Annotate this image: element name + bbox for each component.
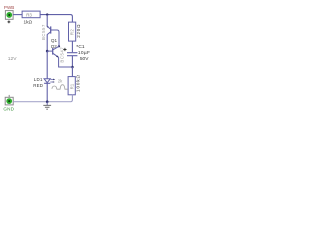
wire Q2 emitter to node — [59, 57, 73, 67]
svg-text:R3: R3 — [26, 13, 32, 18]
svg-text:12V: 12V — [8, 56, 17, 62]
transistor Q2 emitter diagonal — [53, 53, 59, 57]
capacitor C1 top plate — [67, 52, 77, 54]
svg-text:R1: R1 — [69, 83, 74, 89]
transistor Q2 collector diagonal — [53, 46, 59, 50]
capacitor C1 plus sign — [63, 48, 66, 51]
earth ground bars — [43, 104, 51, 106]
ground connector GND box — [5, 97, 13, 105]
ground connector green pad — [6, 98, 12, 104]
svg-text:Q1: Q1 — [51, 38, 58, 43]
svg-text:BC547: BC547 — [59, 47, 64, 63]
transistor Q2 base wire — [47, 50, 53, 52]
wire P1 to R3 — [13, 14, 22, 16]
resistor R1 box — [68, 77, 75, 95]
svg-text:100kΩ: 100kΩ — [75, 74, 80, 92]
connector P1 box — [5, 11, 13, 20]
svg-text:C1: C1 — [78, 44, 84, 50]
transistor Q2 base bar — [52, 48, 54, 54]
transistor Q1 emitter diagonal — [47, 26, 51, 29]
node junction top — [46, 13, 48, 15]
LED LD1 triangle — [44, 79, 50, 83]
svg-text:LD1: LD1 — [34, 77, 43, 82]
resistor R2 box — [69, 22, 76, 41]
transistor Q1 base wire to Q2 collector — [51, 30, 59, 46]
svg-text:BC557: BC557 — [41, 24, 46, 40]
resistor R3 box — [22, 11, 40, 18]
wire LED cathode down — [46, 83, 48, 101]
connector P1 plus mark — [8, 21, 11, 24]
wire R1 bottom corner to rail — [70, 95, 72, 102]
svg-text:GND: GND — [3, 106, 14, 111]
svg-text:R2: R2 — [70, 29, 75, 35]
transistor Q2 emitter arrowhead — [56, 55, 58, 57]
wire C1 to node — [71, 56, 73, 67]
svg-text:RED: RED — [33, 83, 43, 88]
node junction LED/Q2 base — [46, 50, 49, 53]
background — [0, 0, 94, 120]
svg-text:1kΩ: 1kΩ — [24, 20, 33, 25]
ground connector pin tick — [8, 95, 10, 97]
wire rail R3 to R2 corner — [40, 15, 72, 23]
svg-text:PWB: PWB — [4, 5, 14, 10]
wire bottom rail — [13, 101, 70, 103]
capacitor C1 bottom plate — [67, 55, 77, 57]
wire to LED anode — [46, 51, 48, 79]
svg-text:50V: 50V — [80, 56, 89, 62]
transistor Q1 base bar — [50, 26, 52, 33]
node Q1 base / Q2 collector — [58, 45, 60, 47]
svg-text:10µF: 10µF — [78, 50, 90, 56]
wire R2 to C1 — [71, 41, 73, 52]
transistor Q1 emitter wire — [46, 15, 48, 27]
LED LD1 cathode bar — [44, 82, 50, 84]
svg-text:220Ω: 220Ω — [76, 24, 81, 38]
capacitor C1 polarity dot — [77, 45, 78, 46]
connector P1 green pad — [6, 12, 12, 18]
transistor Q1 emitter arrowhead — [47, 26, 49, 28]
node junction C1/R1/Q2 — [71, 66, 74, 69]
earth ground stub — [46, 102, 48, 105]
resistor 2k gray squiggle — [52, 85, 68, 90]
LED LD1 emission arrows — [50, 79, 54, 82]
node junction bottom — [46, 100, 49, 103]
wire node to R1 — [71, 67, 73, 77]
wire Q1 collector down — [46, 34, 48, 51]
transistor Q1 collector diagonal — [47, 32, 50, 35]
